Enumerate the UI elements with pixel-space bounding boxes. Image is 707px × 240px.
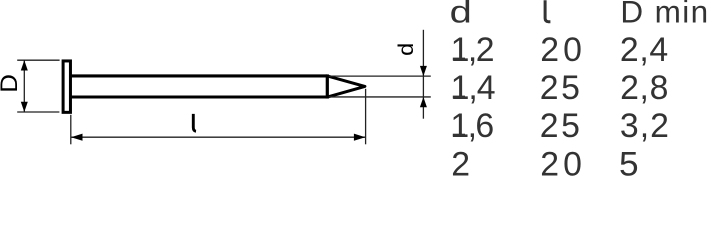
label l <box>193 114 196 131</box>
dimension D line <box>23 60 25 112</box>
svg-text:5: 5 <box>619 146 639 178</box>
svg-text:1,6: 1,6 <box>450 107 494 145</box>
nail shank top line <box>72 74 328 77</box>
dimension D top arrow <box>21 60 28 70</box>
dimension l left extension line <box>70 115 72 145</box>
table header l <box>545 0 550 22</box>
nail tip junction line <box>326 74 329 98</box>
dimension l right extension line <box>365 89 367 145</box>
dimension d lower arrow <box>420 97 427 107</box>
svg-text:2,4: 2,4 <box>620 31 668 69</box>
nail shank bottom line <box>72 96 328 99</box>
nail tip point <box>327 76 365 97</box>
nail head <box>63 61 70 112</box>
svg-text:2: 2 <box>451 146 470 178</box>
dimension d upper arrow <box>420 66 427 76</box>
svg-text:2,8: 2,8 <box>620 69 668 107</box>
svg-text:D min: D min <box>620 0 707 30</box>
svg-text:d: d <box>394 43 418 56</box>
svg-text:3,2: 3,2 <box>620 107 669 145</box>
dimension l left arrow <box>71 134 83 141</box>
dimension D bottom arrow <box>21 102 28 112</box>
dimension D bottom extension line <box>17 111 59 113</box>
svg-text:1,4: 1,4 <box>451 69 496 107</box>
dimension d bottom extension line <box>329 96 431 98</box>
dimension d top extension line <box>329 75 431 77</box>
dimension l line <box>71 136 366 138</box>
dimension D top extension line <box>17 59 59 61</box>
dimension d line <box>422 30 424 119</box>
svg-text:d: d <box>450 0 472 30</box>
dimension l right arrow <box>354 134 366 141</box>
svg-text:1,2: 1,2 <box>451 31 495 69</box>
svg-text:D: D <box>0 74 23 93</box>
